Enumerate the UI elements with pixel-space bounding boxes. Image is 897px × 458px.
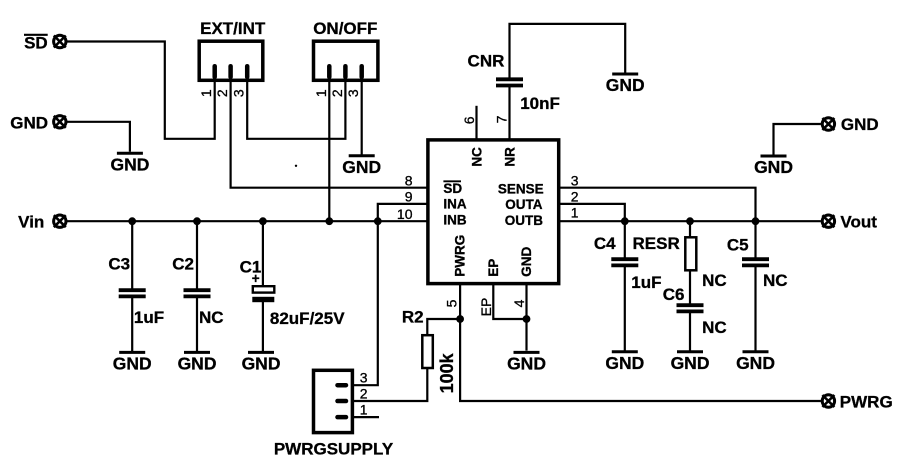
svg-text:ON/OFF: ON/OFF [313,19,377,38]
svg-text:PWRG: PWRG [453,235,468,277]
svg-text:10nF: 10nF [520,94,560,113]
svg-text:NR: NR [503,147,518,167]
svg-text:RESR: RESR [633,234,680,253]
svg-text:3: 3 [231,89,247,97]
svg-text:Vin: Vin [18,212,44,231]
svg-text:9: 9 [405,189,413,205]
svg-text:EP: EP [486,259,501,277]
svg-text:2: 2 [360,386,368,402]
svg-text:GND: GND [841,115,879,134]
svg-text:C4: C4 [594,234,616,253]
svg-text:C1: C1 [240,258,262,277]
svg-text:100k: 100k [437,352,457,393]
svg-text:6: 6 [461,116,477,124]
svg-text:C3: C3 [108,255,130,274]
svg-text:1: 1 [313,89,329,97]
svg-text:NC: NC [199,308,224,327]
svg-text:C2: C2 [172,255,194,274]
svg-text:7: 7 [494,115,510,123]
svg-text:CNR: CNR [468,52,505,71]
svg-text:SD: SD [24,33,48,52]
svg-text:SENSE: SENSE [498,181,544,196]
svg-text:8: 8 [405,172,413,188]
svg-text:1: 1 [198,89,214,97]
svg-text:NC: NC [763,271,788,290]
svg-text:10: 10 [397,206,413,222]
svg-text:Vout: Vout [840,212,877,231]
svg-text:3: 3 [571,172,579,188]
svg-text:3: 3 [345,89,361,97]
svg-text:4: 4 [511,299,527,307]
svg-text:EXT/INT: EXT/INT [200,19,266,38]
svg-text:GND: GND [519,247,534,277]
svg-text:3: 3 [360,369,368,385]
svg-text:GND: GND [10,114,48,133]
svg-text:5: 5 [444,299,460,307]
svg-text:1: 1 [360,402,368,418]
svg-text:PWRG: PWRG [840,392,893,411]
svg-text:2: 2 [329,89,345,97]
svg-text:2: 2 [571,189,579,205]
svg-text:1uF: 1uF [134,308,164,327]
svg-text:SD: SD [443,181,462,196]
svg-text:1uF: 1uF [631,273,661,292]
svg-text:EP: EP [478,298,494,317]
svg-text:C6: C6 [663,285,685,304]
svg-text:1: 1 [571,204,579,220]
svg-text:OUTB: OUTB [505,213,543,228]
svg-text:82uF/25V: 82uF/25V [270,309,345,328]
svg-text:PWRGSUPPLY: PWRGSUPPLY [274,439,394,458]
svg-text:INA: INA [443,196,467,211]
svg-text:R2: R2 [402,307,424,326]
svg-text:INB: INB [443,212,467,227]
svg-text:NC: NC [702,271,727,290]
svg-text:C5: C5 [727,235,749,254]
svg-text:NC: NC [470,147,485,167]
svg-text:OUTA: OUTA [505,197,542,212]
svg-text:2: 2 [214,89,230,97]
svg-text:NC: NC [702,318,727,337]
